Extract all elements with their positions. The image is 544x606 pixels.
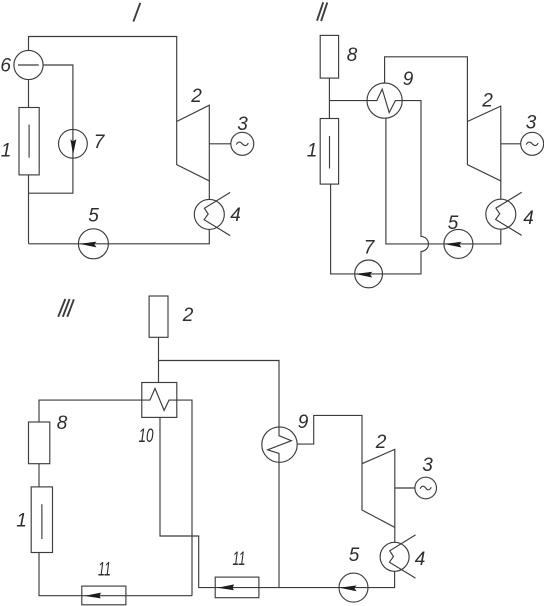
svg-text:5: 5 (448, 213, 459, 234)
numeral III (58, 299, 74, 317)
svg-text:7: 7 (364, 238, 376, 259)
svg-text:3: 3 (422, 455, 433, 476)
wire left leg I (28, 175, 30, 244)
svg-text:1: 1 (1, 141, 12, 162)
wire 6 to boiler 1 (28, 80, 30, 108)
condenser 4 (194, 199, 224, 229)
wire steam line II (385, 57, 468, 122)
turbine 2 (362, 449, 395, 527)
heat exchanger 9 (262, 427, 297, 462)
svg-text:3: 3 (237, 114, 248, 135)
svg-text:8: 8 (347, 45, 358, 66)
svg-text:3: 3 (526, 113, 537, 134)
wire 8 to 1 (38, 464, 40, 487)
pump 5 (78, 229, 108, 259)
svg-text:2: 2 (182, 305, 194, 326)
wire left rail to 8 (39, 400, 142, 422)
svg-text:11: 11 (98, 560, 111, 581)
wire bottom left rail (39, 553, 192, 596)
consumer 2 (149, 296, 168, 337)
wire turbine to condenser (208, 181, 210, 200)
svg-text:4: 4 (523, 208, 534, 229)
condenser 4 (486, 199, 516, 229)
svg-text:7: 7 (94, 132, 106, 153)
svg-text:2: 2 (481, 91, 493, 112)
wire 8 to 1 (328, 78, 330, 118)
numeral I (133, 3, 140, 22)
svg-text:9: 9 (298, 412, 309, 433)
svg-text:4: 4 (230, 205, 241, 226)
svg-text:2: 2 (190, 86, 202, 107)
wire condenser rail to HX bottom (386, 118, 501, 244)
wire turbine to generator (209, 143, 230, 145)
wire turbine to generator (395, 487, 415, 489)
svg-text:1: 1 (16, 511, 27, 532)
pump 5 (444, 229, 473, 258)
heat exchanger 9 (367, 83, 402, 118)
boiler 1 (31, 487, 52, 553)
fuel cell 8 (320, 35, 338, 78)
tank 6 (14, 50, 43, 79)
turbine 2 (177, 105, 210, 181)
boiler 1 (19, 108, 39, 175)
wire turbine to condenser (500, 181, 502, 199)
svg-text:1: 1 (307, 141, 318, 162)
numeral II (317, 2, 327, 21)
svg-text:5: 5 (88, 206, 99, 227)
boiler 1 (320, 119, 338, 185)
svg-text:6: 6 (0, 56, 11, 77)
wire bottom rail I (29, 229, 210, 243)
wire top rail I (29, 37, 177, 122)
wire 10 bottom jog (160, 417, 395, 587)
flow element 11 (215, 577, 259, 598)
wire turbine to generator (501, 143, 521, 145)
pump 5 (339, 573, 368, 602)
fuel cell 8 (29, 422, 50, 464)
condenser 4 (380, 542, 409, 571)
svg-text:5: 5 (349, 545, 360, 566)
generator 3 (521, 132, 544, 155)
wire 10 right port down (177, 400, 192, 596)
pump 7 (59, 129, 88, 158)
svg-text:2: 2 (375, 432, 387, 453)
svg-text:8: 8 (57, 413, 68, 434)
svg-text:4: 4 (415, 549, 426, 570)
pump 7 (355, 260, 383, 288)
flow element 11 (82, 586, 126, 605)
wire branch to HX 9 (159, 361, 292, 588)
wire HX to turbine (297, 415, 362, 463)
wire turbine to condenser (394, 527, 396, 542)
svg-text:11: 11 (233, 549, 246, 570)
wire bypass with pump 7 (29, 65, 73, 193)
turbine 2 (467, 106, 500, 181)
generator 3 (415, 477, 437, 499)
svg-text:10: 10 (139, 426, 154, 447)
wire 2 to 10 (158, 337, 160, 382)
wire downcomer with hop (331, 101, 429, 274)
generator 3 (231, 132, 254, 155)
steam generator 10 (142, 383, 177, 418)
svg-text:9: 9 (403, 69, 414, 90)
wire junction to HX 9 (329, 100, 367, 102)
